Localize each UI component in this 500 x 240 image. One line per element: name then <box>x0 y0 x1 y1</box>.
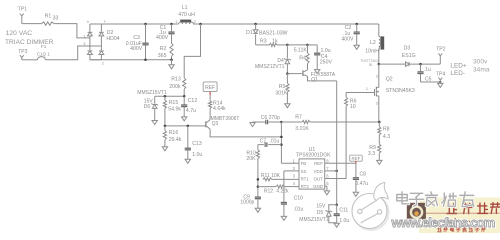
ground below C13 <box>185 159 190 163</box>
svg-text:LED+: LED+ <box>450 62 466 69</box>
ground below R16 <box>164 140 166 147</box>
svg-text:MMSZ12VT1: MMSZ12VT1 <box>255 64 285 70</box>
wire D4 node to Q1 base <box>286 72 289 75</box>
wire VDD rail vertical <box>336 81 338 205</box>
svg-text:.01u: .01u <box>270 139 280 145</box>
wire fuse to bridge AC2 <box>45 46 101 60</box>
svg-text:BAS21-03W: BAS21-03W <box>259 30 288 36</box>
svg-text:Q3: Q3 <box>212 121 219 127</box>
wire pin7 VDD <box>325 170 337 172</box>
svg-text:TP1: TP1 <box>18 7 27 13</box>
svg-text:MMSZ15VT1: MMSZ15VT1 <box>137 90 167 96</box>
wire L2 to drain node <box>378 50 380 65</box>
ground below R2 <box>171 60 173 65</box>
ground below R5 <box>286 92 288 104</box>
svg-text:C13: C13 <box>192 141 202 147</box>
svg-text:4.7u: 4.7u <box>186 108 196 114</box>
svg-text:C11: C11 <box>339 207 348 213</box>
svg-text:MMSZ15VT1: MMSZ15VT1 <box>299 217 329 223</box>
svg-text:VDD: VDD <box>314 169 323 174</box>
wire R7 to Q2 source <box>310 121 379 123</box>
svg-text:GND: GND <box>313 184 323 189</box>
svg-text:REF: REF <box>314 161 323 166</box>
svg-text:HD04: HD04 <box>106 36 119 42</box>
svg-text:R12: R12 <box>264 188 273 194</box>
svg-text:10: 10 <box>350 104 356 110</box>
wire top rail <box>101 23 177 25</box>
svg-text:R13: R13 <box>171 77 181 83</box>
svg-text:R3: R3 <box>260 38 267 44</box>
svg-text:3.3: 3.3 <box>368 151 375 157</box>
net label REF (right) <box>350 155 363 161</box>
svg-text:Q2: Q2 <box>386 77 393 83</box>
svg-text:120 VAC: 120 VAC <box>6 30 33 37</box>
svg-text:20K: 20K <box>246 156 256 162</box>
wire R6 to OUT pin <box>325 106 346 178</box>
wire pin8 to REF box <box>325 162 356 164</box>
svg-text:33: 33 <box>53 16 59 22</box>
ground below C4 <box>315 70 320 74</box>
svg-text:TP2: TP2 <box>436 46 445 52</box>
svg-text:1.0u: 1.0u <box>339 218 349 224</box>
svg-text:D5: D5 <box>317 210 324 216</box>
ground below C9 <box>255 208 260 212</box>
svg-text:TP3: TP3 <box>18 49 27 55</box>
svg-text:ES1G: ES1G <box>402 53 416 59</box>
watermark small red slogan <box>437 228 441 232</box>
watermark red chars hidden behind <box>447 204 456 214</box>
wire Q1 collector to VDD rail <box>308 76 337 81</box>
svg-text:3: 3 <box>83 42 85 46</box>
ground below R9 <box>378 153 380 160</box>
svg-text:.1u: .1u <box>424 67 431 73</box>
svg-text:R1: R1 <box>45 13 52 19</box>
svg-text:301K: 301K <box>275 91 288 97</box>
wire FB vertical <box>280 122 282 163</box>
svg-text:REF: REF <box>352 156 361 161</box>
bridge diode lower-left <box>88 51 93 55</box>
svg-text:3.01K: 3.01K <box>295 126 309 132</box>
svg-text:.01u: .01u <box>294 207 304 213</box>
svg-text:400V: 400V <box>156 35 169 41</box>
svg-text:F1: F1 <box>41 44 47 49</box>
ground below C10 <box>281 216 286 220</box>
svg-text:REF: REF <box>205 85 215 91</box>
wire node row B <box>165 125 206 127</box>
ground below C8 <box>353 192 358 196</box>
wire node row A <box>155 95 185 97</box>
svg-text:Q1: Q1 <box>311 77 318 83</box>
svg-text:RT1: RT1 <box>301 176 310 181</box>
bridge diode upper-right <box>99 32 104 36</box>
watermark logo circle <box>352 182 389 230</box>
svg-text:TP4: TP4 <box>436 71 445 77</box>
ground at TP4 <box>439 82 441 83</box>
svg-text:SS: SS <box>301 169 307 174</box>
bridge diode upper-left <box>88 32 93 36</box>
svg-text:R7: R7 <box>295 115 302 121</box>
wire REF stem (red) <box>209 92 211 95</box>
svg-text:1: 1 <box>83 34 85 38</box>
svg-text:4.22k: 4.22k <box>276 188 289 194</box>
svg-text:4: 4 <box>87 20 89 24</box>
svg-text:5.11K: 5.11K <box>294 48 308 54</box>
svg-text:365: 365 <box>158 53 167 59</box>
svg-text:2: 2 <box>102 61 104 65</box>
wire R3 node <box>286 44 289 47</box>
ground below C11 <box>336 222 338 224</box>
svg-text:1000p: 1000p <box>240 200 254 206</box>
node FB top <box>280 121 283 124</box>
svg-text:1.0u: 1.0u <box>192 152 202 158</box>
svg-text:34ma: 34ma <box>473 67 490 74</box>
svg-text:STN3N45K3: STN3N45K3 <box>386 88 415 94</box>
svg-text:0.47u: 0.47u <box>356 181 369 187</box>
node drain junction <box>378 63 381 66</box>
watermark logo box (dark) <box>407 203 426 220</box>
svg-text:FB: FB <box>301 161 307 166</box>
svg-text:LED-: LED- <box>450 70 465 77</box>
svg-text:R5: R5 <box>279 84 286 90</box>
svg-text:4.64k: 4.64k <box>213 106 226 112</box>
svg-text:400V: 400V <box>341 37 354 43</box>
watermark red char shi-jie <box>478 203 488 213</box>
svg-text:400V: 400V <box>130 46 143 52</box>
svg-text:RL: RL <box>369 63 373 67</box>
ground at C6 <box>250 123 255 127</box>
svg-text:29.4k: 29.4k <box>169 137 182 143</box>
wire rail to R13 <box>199 23 202 26</box>
svg-text:TRIAC DIMMER: TRIAC DIMMER <box>5 39 54 46</box>
svg-text:10mH: 10mH <box>365 48 379 54</box>
watermark yellow panel <box>419 198 500 234</box>
svg-text:R15: R15 <box>169 100 179 106</box>
wire Q3 collector to FB <box>210 129 281 137</box>
svg-text:R16: R16 <box>169 130 179 136</box>
watermark gray CJK big chars <box>397 192 409 204</box>
svg-text:200k: 200k <box>169 84 181 90</box>
svg-text:C1Q 1: C1Q 1 <box>37 52 51 57</box>
ground below C12 <box>182 117 187 121</box>
svg-text:D6: D6 <box>144 104 151 110</box>
svg-text:250V: 250V <box>320 60 333 66</box>
svg-text:L2: L2 <box>370 40 376 46</box>
svg-text:4.3: 4.3 <box>383 134 390 140</box>
svg-text:D1: D1 <box>246 30 253 36</box>
svg-text:D3: D3 <box>404 45 411 51</box>
svg-text:54.9k: 54.9k <box>168 106 181 112</box>
svg-text:470 uH: 470 uH <box>178 12 195 18</box>
ground below D6 <box>154 108 156 120</box>
wire TP1 to R1 <box>21 18 23 23</box>
svg-text:270p: 270p <box>269 115 280 121</box>
svg-text:R8: R8 <box>383 126 390 132</box>
wire bottom rail <box>90 59 172 61</box>
wire R1 to bridge AC1 <box>54 24 90 38</box>
bridge diode lower-right <box>99 51 104 55</box>
wire TP3 to fuse <box>21 59 23 61</box>
svg-text:300v: 300v <box>473 58 488 65</box>
watermark red underline <box>426 212 500 214</box>
ground below C2 <box>354 45 359 49</box>
svg-text:15V: 15V <box>316 204 326 210</box>
svg-text:RT2: RT2 <box>301 184 310 189</box>
svg-text:R2: R2 <box>160 46 167 52</box>
svg-text:L1: L1 <box>182 5 188 11</box>
wire rail corner to L2 <box>378 24 380 36</box>
svg-text:D4: D4 <box>277 58 284 64</box>
wire pin5 GND to ground <box>325 185 327 187</box>
svg-text:C12: C12 <box>188 98 198 104</box>
svg-text:OUT: OUT <box>314 176 324 181</box>
svg-text:C8: C8 <box>360 171 367 177</box>
net label REF (left) <box>203 82 217 92</box>
svg-text:C10: C10 <box>294 196 303 202</box>
